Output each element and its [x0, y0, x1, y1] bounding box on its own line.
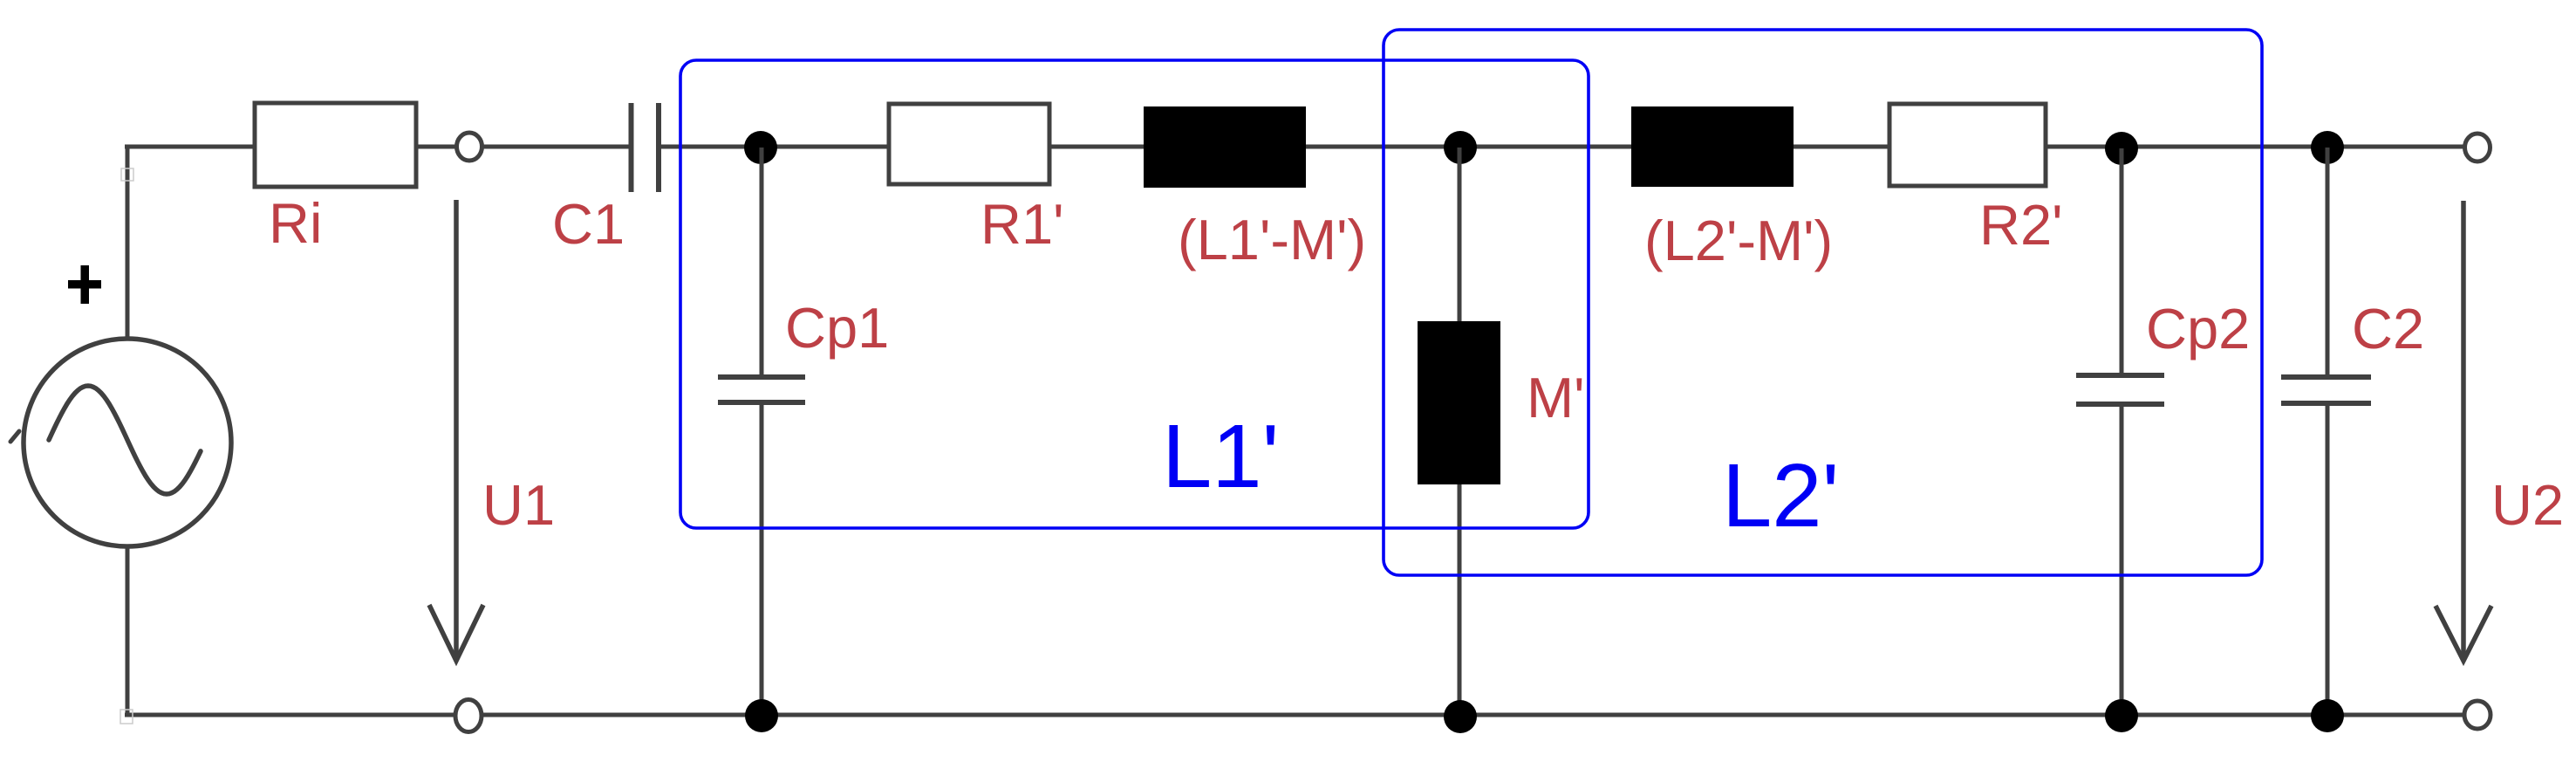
terminal U1+ (open circle)	[457, 133, 482, 161]
svg-text:(L1'-M'): (L1'-M')	[1178, 208, 1366, 271]
wire C2 lower	[2326, 403, 2330, 715]
wire Cp2 lower	[2120, 404, 2124, 715]
handle square bottom-left	[120, 710, 133, 724]
node junction top Cp2	[2105, 132, 2138, 165]
wire L1'-M' to L2'-M'	[1306, 145, 1632, 149]
inductor (L2'-M') black box	[1631, 106, 1794, 187]
resistor Ri	[255, 103, 416, 187]
arrow U2 line	[2461, 201, 2466, 656]
svg-text:C1: C1	[552, 192, 625, 256]
svg-text:U1: U1	[482, 473, 555, 537]
resistor R2'	[1889, 104, 2046, 186]
svg-text:M': M'	[1527, 366, 1585, 429]
capacitor C2 plate bottom	[2281, 401, 2371, 406]
wire Cp1 upper	[760, 148, 764, 377]
terminal U2+ (open circle)	[2465, 134, 2491, 161]
wire C1 to R1'	[661, 145, 889, 149]
source sine wave	[49, 386, 201, 494]
plus sign of source	[68, 280, 101, 289]
terminal U1- (open circle bottom)	[455, 700, 482, 732]
node junction bottom Cp1	[745, 699, 778, 732]
arrow U1 line	[454, 200, 459, 656]
wire left vertical upper	[126, 145, 130, 340]
inductor M' black box	[1418, 321, 1500, 484]
capacitor C2 plate top	[2281, 374, 2371, 380]
terminal U2- (open circle bottom right)	[2464, 701, 2491, 729]
wire R1' to L1'-M'	[1049, 145, 1145, 149]
tick on source circle left edge	[10, 431, 19, 442]
svg-text:U2: U2	[2491, 473, 2564, 537]
wire R2' to terminal right	[2046, 145, 2465, 149]
wire left vertical lower	[126, 546, 130, 717]
svg-text:L2': L2'	[1722, 445, 1839, 546]
svg-text:C2: C2	[2352, 297, 2424, 360]
svg-text:(L2'-M'): (L2'-M')	[1644, 209, 1833, 272]
capacitor Cp2 plate bottom	[2076, 402, 2164, 407]
capacitor C1 plate right	[656, 103, 661, 192]
svg-text:L1': L1'	[1162, 406, 1279, 506]
node junction bottom Cp2	[2105, 699, 2138, 732]
svg-text:Ri: Ri	[269, 191, 322, 255]
resistor R1'	[889, 104, 1049, 184]
wire C2 upper	[2326, 148, 2330, 377]
capacitor Cp1 plate bottom	[718, 400, 805, 405]
node junction top C2	[2311, 131, 2344, 164]
node junction top Cp1	[744, 131, 777, 164]
box L2' blue	[1384, 30, 2262, 575]
capacitor Cp1 plate top	[718, 374, 805, 380]
svg-text:R1': R1'	[981, 192, 1064, 256]
wire Ri to terminal	[416, 145, 457, 149]
source sine symbol circle	[24, 339, 231, 546]
node junction bottom M'	[1444, 700, 1477, 733]
node junction top M'	[1444, 131, 1477, 164]
svg-text:R2': R2'	[1979, 193, 2063, 257]
wire top-left horizontal	[125, 145, 256, 149]
wire Cp2 upper	[2120, 148, 2124, 375]
handle square top-left	[121, 168, 133, 181]
wire Cp1 lower	[760, 402, 764, 715]
capacitor C1 plate left	[629, 103, 634, 192]
wire bottom horizontal	[125, 713, 2465, 717]
svg-text:Cp1: Cp1	[785, 296, 889, 360]
svg-text:Cp2: Cp2	[2146, 297, 2250, 360]
arrow U2 head	[2436, 606, 2491, 661]
wire terminal to C1	[482, 145, 629, 149]
wire L2'-M' to R2'	[1794, 145, 1890, 149]
wire M' lower	[1458, 484, 1462, 715]
node junction bottom C2	[2311, 699, 2344, 732]
box L1' blue	[680, 60, 1589, 528]
capacitor Cp2 plate top	[2076, 373, 2164, 378]
inductor (L1'-M') black box	[1144, 106, 1306, 188]
wire M' upper	[1458, 148, 1462, 321]
arrow U1 head	[429, 605, 483, 661]
